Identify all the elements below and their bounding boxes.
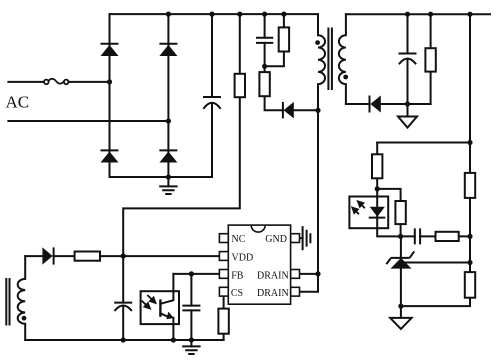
svg-text:VDD: VDD (232, 252, 254, 263)
svg-text:AC: AC (6, 93, 30, 112)
svg-text:GND: GND (265, 234, 287, 245)
svg-text:DRAIN: DRAIN (257, 288, 289, 299)
svg-text:FB: FB (231, 270, 244, 281)
svg-text:NC: NC (232, 234, 246, 245)
svg-text:DRAIN: DRAIN (257, 270, 289, 281)
svg-text:CS: CS (231, 288, 243, 299)
